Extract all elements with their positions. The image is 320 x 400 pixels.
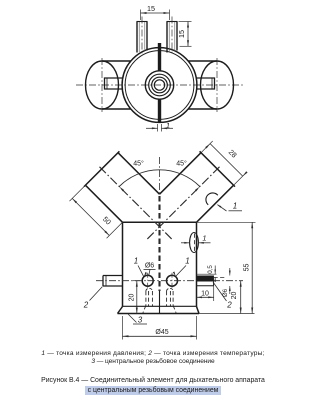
svg-text:2: 2 xyxy=(226,301,232,310)
svg-text:50: 50 xyxy=(101,215,113,227)
svg-text:20: 20 xyxy=(231,292,238,300)
svg-text:20: 20 xyxy=(128,294,135,302)
svg-text:3: 3 xyxy=(138,316,143,325)
svg-text:Ø6: Ø6 xyxy=(145,263,154,270)
svg-text:15: 15 xyxy=(177,30,186,38)
svg-text:0,5: 0,5 xyxy=(207,265,214,274)
svg-text:1: 1 xyxy=(233,202,237,211)
svg-text:2: 2 xyxy=(83,301,89,310)
svg-text:15: 15 xyxy=(147,4,155,13)
svg-text:45°: 45° xyxy=(176,160,187,168)
svg-text:55: 55 xyxy=(244,264,251,272)
svg-text:1: 1 xyxy=(202,233,206,242)
svg-text:Ø45: Ø45 xyxy=(155,329,168,336)
svg-text:10: 10 xyxy=(201,290,209,297)
svg-text:1: 1 xyxy=(166,121,170,130)
svg-text:45°: 45° xyxy=(133,160,144,168)
svg-text:Ø6: Ø6 xyxy=(222,288,229,297)
svg-text:1: 1 xyxy=(185,257,189,266)
svg-text:1: 1 xyxy=(134,257,138,266)
svg-text:28: 28 xyxy=(227,148,239,160)
